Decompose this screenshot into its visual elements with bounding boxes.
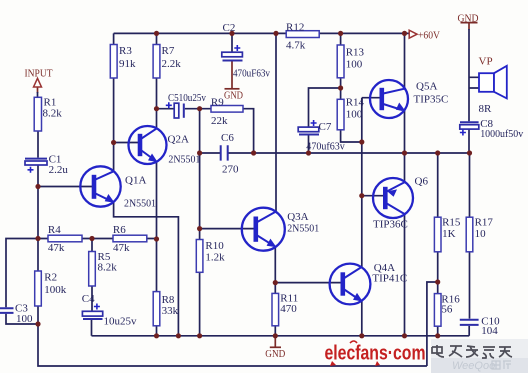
svg-text:WeeQoo: WeeQoo xyxy=(452,360,495,372)
svg-text:TIP41C: TIP41C xyxy=(372,273,407,285)
svg-text:GND: GND xyxy=(224,90,243,102)
ground bar under C2 xyxy=(225,88,240,90)
wire R11 bottom stub xyxy=(274,326,276,336)
wire R15 bottom to junction, R16 xyxy=(437,252,439,336)
svg-text:100: 100 xyxy=(346,109,363,121)
R6 label xyxy=(113,224,130,254)
svg-text:56: 56 xyxy=(441,304,453,316)
capacitor C5 xyxy=(174,103,184,118)
svg-text:Q6: Q6 xyxy=(415,175,429,187)
ground bar bottom xyxy=(270,346,281,348)
resistor R10 xyxy=(196,240,203,273)
wire C7 column to mid rail xyxy=(308,136,310,154)
C5 plus sign xyxy=(166,102,172,108)
Q5A label xyxy=(414,80,449,105)
svg-text:+60V: +60V xyxy=(418,29,440,41)
wire R3 column (rail to Q1A collector) xyxy=(113,33,115,171)
resistor R17 xyxy=(466,217,473,252)
wire top +60V rail xyxy=(114,32,409,34)
svg-text:R2: R2 xyxy=(44,272,57,284)
svg-text:100: 100 xyxy=(346,59,363,71)
R13 label xyxy=(346,47,365,71)
svg-text:104: 104 xyxy=(481,325,498,337)
wire R14 bottom jog to Q5A base column xyxy=(341,130,362,142)
wire Q6 emitter up to mid rail xyxy=(404,153,406,182)
C4 plus sign xyxy=(94,304,100,310)
wire Q5A emitter to mid rail xyxy=(404,109,406,153)
svg-text:INPUT: INPUT xyxy=(25,68,53,80)
C2 plus sign xyxy=(234,45,240,51)
svg-text:47k: 47k xyxy=(113,242,130,254)
resistor R9 xyxy=(211,106,243,113)
svg-text:TIP35C: TIP35C xyxy=(414,93,449,105)
INPUT arrow xyxy=(34,78,42,87)
svg-text:R6: R6 xyxy=(113,224,126,236)
R11 label xyxy=(280,293,298,316)
wire arrow stub to R1 xyxy=(37,92,39,97)
svg-text:8R: 8R xyxy=(479,103,493,115)
junction R8 bottom line xyxy=(154,333,159,338)
R8 label xyxy=(162,294,179,317)
resistor R15 xyxy=(434,217,441,252)
svg-text:33k: 33k xyxy=(162,305,179,317)
junction R6 right/Q2A emitter xyxy=(154,236,159,241)
wire bottom output line xyxy=(92,335,470,337)
resistor R16 xyxy=(434,294,441,327)
svg-text:Q3A: Q3A xyxy=(287,211,308,223)
wire speaker column xyxy=(468,29,470,121)
wire Q6 collector down to bottom line xyxy=(404,214,406,336)
wire R13 top stub xyxy=(340,33,342,45)
svg-text:R17: R17 xyxy=(475,217,494,229)
R12 label xyxy=(286,22,306,52)
R1 label xyxy=(43,97,63,120)
resistor R11 xyxy=(272,293,279,325)
junction R10 bottom line xyxy=(197,333,202,338)
C10 label xyxy=(481,316,500,338)
wire Q3A base xyxy=(200,228,256,230)
resistor R4 xyxy=(48,235,82,242)
svg-text:91k: 91k xyxy=(119,58,136,70)
resistor R5 xyxy=(89,252,96,287)
svg-text:GND: GND xyxy=(458,12,479,24)
junction R16 bottom line xyxy=(435,333,440,338)
svg-text:10u25v: 10u25v xyxy=(104,316,138,328)
C4 label xyxy=(82,293,137,328)
junction R2 bottom xyxy=(35,321,40,326)
wire C5 row (R7 column to R9) xyxy=(157,108,212,110)
R7 label xyxy=(162,45,182,70)
watermark chinese text 电子发烧友 xyxy=(432,345,512,358)
junction Q6 collector/bottom line xyxy=(402,333,407,338)
junction Q1A base/C1 xyxy=(35,184,40,189)
junction R13/top rail xyxy=(338,31,343,36)
junction R4 left xyxy=(35,236,40,241)
junction C5 right branch xyxy=(197,106,202,111)
capacitor C10 xyxy=(460,320,479,325)
svg-text:C510u25v: C510u25v xyxy=(168,92,206,104)
svg-text:Q1A: Q1A xyxy=(125,175,146,187)
wire C10 bottom corner to bottom line xyxy=(468,326,470,336)
wire C1 to Q1A base junction, down to R4 junction xyxy=(37,165,39,271)
wire C4 bottom corner xyxy=(91,320,93,336)
svg-text:R7: R7 xyxy=(162,45,175,57)
wire Q1A base xyxy=(38,186,93,188)
R3 label xyxy=(119,45,136,70)
resistor R6 xyxy=(113,235,147,242)
capacitor C1 xyxy=(25,159,47,165)
C3 label xyxy=(15,303,33,326)
svg-text:270: 270 xyxy=(222,163,239,175)
svg-text:R9: R9 xyxy=(211,96,224,108)
svg-text:100: 100 xyxy=(16,313,33,325)
svg-text:R13: R13 xyxy=(346,47,365,59)
R2 label xyxy=(44,272,67,297)
junction R13/R14/C7 xyxy=(338,85,343,90)
wire C2 column (rail to cap) xyxy=(231,33,233,52)
wire C2 to GND (red) xyxy=(231,62,233,89)
junction Q4A emitter/bottom line xyxy=(359,333,364,338)
svg-text:R10: R10 xyxy=(205,240,224,252)
transistor Q6 (PNP) xyxy=(373,178,413,218)
svg-text:2.2u: 2.2u xyxy=(49,164,69,176)
junction R10 top/Q3A base xyxy=(197,226,202,231)
capacitor C2 xyxy=(222,52,243,60)
svg-text:GND: GND xyxy=(265,348,285,360)
svg-text:10: 10 xyxy=(475,228,487,240)
svg-text:1K: 1K xyxy=(442,228,456,240)
capacitor C6 xyxy=(221,145,228,160)
wire R15/R16 junction tap to bottom rail xyxy=(427,282,438,366)
svg-text:4.7k: 4.7k xyxy=(286,40,306,52)
R4 label xyxy=(48,224,65,254)
junction R12 left/Q3A collector xyxy=(273,31,278,36)
svg-text:1.2k: 1.2k xyxy=(205,252,225,264)
svg-text:R15: R15 xyxy=(442,217,461,229)
junction R7/top rail xyxy=(154,31,159,36)
R14 label xyxy=(346,97,365,121)
wire C5/R9 branch column down (through mid rail, R10, to bottom line) xyxy=(199,109,201,336)
svg-text:TIP36C: TIP36C xyxy=(373,219,408,231)
resistor R1 xyxy=(34,97,41,131)
junction Q6 base/Q4A collector xyxy=(359,193,364,198)
wire Q2A base junction row xyxy=(114,142,139,144)
capacitor C4 xyxy=(82,311,102,319)
svg-text:2N5501: 2N5501 xyxy=(287,222,319,234)
wire Q3A collector column xyxy=(275,33,277,211)
junction C8-R17/mid rail xyxy=(467,150,472,155)
wire GND stub bottom (red) xyxy=(274,336,276,347)
wire GND top right (red stub) xyxy=(468,24,470,31)
junction R5 top xyxy=(89,236,94,241)
Q3A label xyxy=(287,211,319,234)
junction R11 top/Q4A base xyxy=(273,280,278,285)
junction R14/Q5A base xyxy=(359,139,364,144)
svg-text:470uF63v: 470uF63v xyxy=(233,68,270,80)
wire Q3A emitter down to R11 xyxy=(274,247,276,294)
C7 plus sign xyxy=(311,120,317,126)
svg-text:R3: R3 xyxy=(119,45,132,57)
wire R4/R6 row xyxy=(38,238,157,240)
R10 label xyxy=(205,240,225,264)
R5 label xyxy=(98,251,118,274)
watermark background band xyxy=(431,339,528,373)
wire Q5A collector column xyxy=(404,33,406,88)
resistor R13 xyxy=(337,45,344,78)
wire Q1A emitter jog down to bottom line xyxy=(114,202,179,335)
wire R15/R17 columns from mid rail xyxy=(438,153,470,217)
svg-text:elecfans·com: elecfans·com xyxy=(325,343,426,365)
svg-text:2.2k: 2.2k xyxy=(162,58,182,70)
svg-text:470: 470 xyxy=(280,303,297,315)
wire C3 branch: R4 line left, C3 column, bottom corner xyxy=(6,239,38,325)
svg-text:470uf63v: 470uf63v xyxy=(306,141,345,153)
junction Q1A emitter/bottom line xyxy=(176,333,181,338)
wire R1 to C1 xyxy=(37,131,39,158)
C6 label xyxy=(221,132,239,175)
junction R11-GND/bottom line xyxy=(273,333,278,338)
wire Q6 base xyxy=(362,195,385,197)
junction C2/top rail xyxy=(229,31,234,36)
svg-text:R12: R12 xyxy=(286,22,304,34)
wire R11 top row to Q4A base xyxy=(275,282,343,284)
svg-text:1000uf50v: 1000uf50v xyxy=(480,128,523,140)
C1 plus sign xyxy=(28,167,34,173)
svg-text:8.2k: 8.2k xyxy=(98,262,118,274)
svg-text:47k: 47k xyxy=(48,242,65,254)
C1 label xyxy=(49,154,69,177)
capacitor C7 xyxy=(298,127,319,134)
svg-text:100k: 100k xyxy=(44,284,67,296)
Q1A label xyxy=(124,175,156,210)
junction R9/mid rail xyxy=(251,150,256,155)
junction mid rail left xyxy=(197,150,202,155)
wire Q5A base column down to Q4A collector xyxy=(361,98,363,267)
resistor R14 xyxy=(337,99,344,130)
resistor R3 xyxy=(110,45,117,79)
watermark weeqoo xyxy=(452,360,511,372)
R9 label xyxy=(211,96,228,127)
svg-text:VP: VP xyxy=(479,55,493,67)
wire Q5A base xyxy=(362,97,382,99)
Q6 label xyxy=(373,175,428,230)
wire R9 right corner down to mid rail xyxy=(243,109,254,153)
wire R13-R14 junction row xyxy=(309,78,341,127)
transistor Q2A xyxy=(129,126,167,164)
capacitor C8 xyxy=(460,122,479,129)
wire R17 bottom to C10 xyxy=(469,252,471,319)
R16 label xyxy=(441,294,460,316)
svg-text:C4: C4 xyxy=(82,293,95,305)
wire R7 column (rail to Q2A collector) xyxy=(156,33,158,128)
svg-text:C6: C6 xyxy=(221,132,234,144)
junction Q5A-Q6 emitters/mid rail xyxy=(402,150,407,155)
wire Q4A collector/emitter column xyxy=(361,301,363,336)
resistor R7 xyxy=(153,45,160,79)
C8 plus sign xyxy=(460,130,466,136)
junction Q2A base xyxy=(111,140,116,145)
junction C5 left xyxy=(154,106,159,111)
R17 label xyxy=(475,217,494,241)
wire mid output rail xyxy=(200,152,470,154)
C8 label xyxy=(480,118,523,140)
junction R15/mid rail xyxy=(435,150,440,155)
transistor Q1A xyxy=(80,166,120,206)
capacitor C3 xyxy=(0,308,14,313)
svg-text:C7: C7 xyxy=(319,121,332,133)
ground bar top right xyxy=(461,22,478,24)
junction R15/R16 tap xyxy=(435,279,440,284)
+60V arrow xyxy=(409,30,417,38)
junction Q5A collector/top rail xyxy=(402,31,407,36)
svg-text:R14: R14 xyxy=(346,97,365,109)
R15 label xyxy=(442,217,461,241)
transistor Q4A xyxy=(330,264,371,305)
watermark elecfans.com xyxy=(325,341,426,366)
Q2A label xyxy=(168,134,201,166)
wire C8 to mid rail xyxy=(468,129,470,153)
svg-text:Q5A: Q5A xyxy=(416,80,437,92)
wire left column down to bottom rail xyxy=(38,324,427,366)
wire R5 column xyxy=(91,239,93,312)
wire speaker stubs xyxy=(469,77,479,88)
resistor R12 xyxy=(286,31,319,38)
resistor R2 xyxy=(35,271,42,306)
Q4A label xyxy=(372,262,407,285)
wire R2 bottom to corner junction xyxy=(37,306,39,324)
wire Q2A emitter column down (R6 right, R8, bottom line) xyxy=(156,161,158,335)
C2 label xyxy=(223,22,271,80)
svg-text:C2: C2 xyxy=(223,22,236,34)
svg-text:R4: R4 xyxy=(48,224,61,236)
transistor Q5A xyxy=(370,80,408,118)
resistor R8 xyxy=(153,292,160,326)
svg-text:Q2A: Q2A xyxy=(168,134,189,146)
transistor Q3A xyxy=(242,208,285,251)
wire INPUT column: arrow to R1 (red stub) xyxy=(37,87,39,93)
speaker VP xyxy=(479,66,507,99)
svg-text:2N5501: 2N5501 xyxy=(124,198,156,210)
svg-text:22k: 22k xyxy=(211,115,228,127)
svg-text:2N5501: 2N5501 xyxy=(168,154,200,166)
junction C7/mid rail xyxy=(306,150,311,155)
svg-text:8.2k: 8.2k xyxy=(43,108,63,120)
